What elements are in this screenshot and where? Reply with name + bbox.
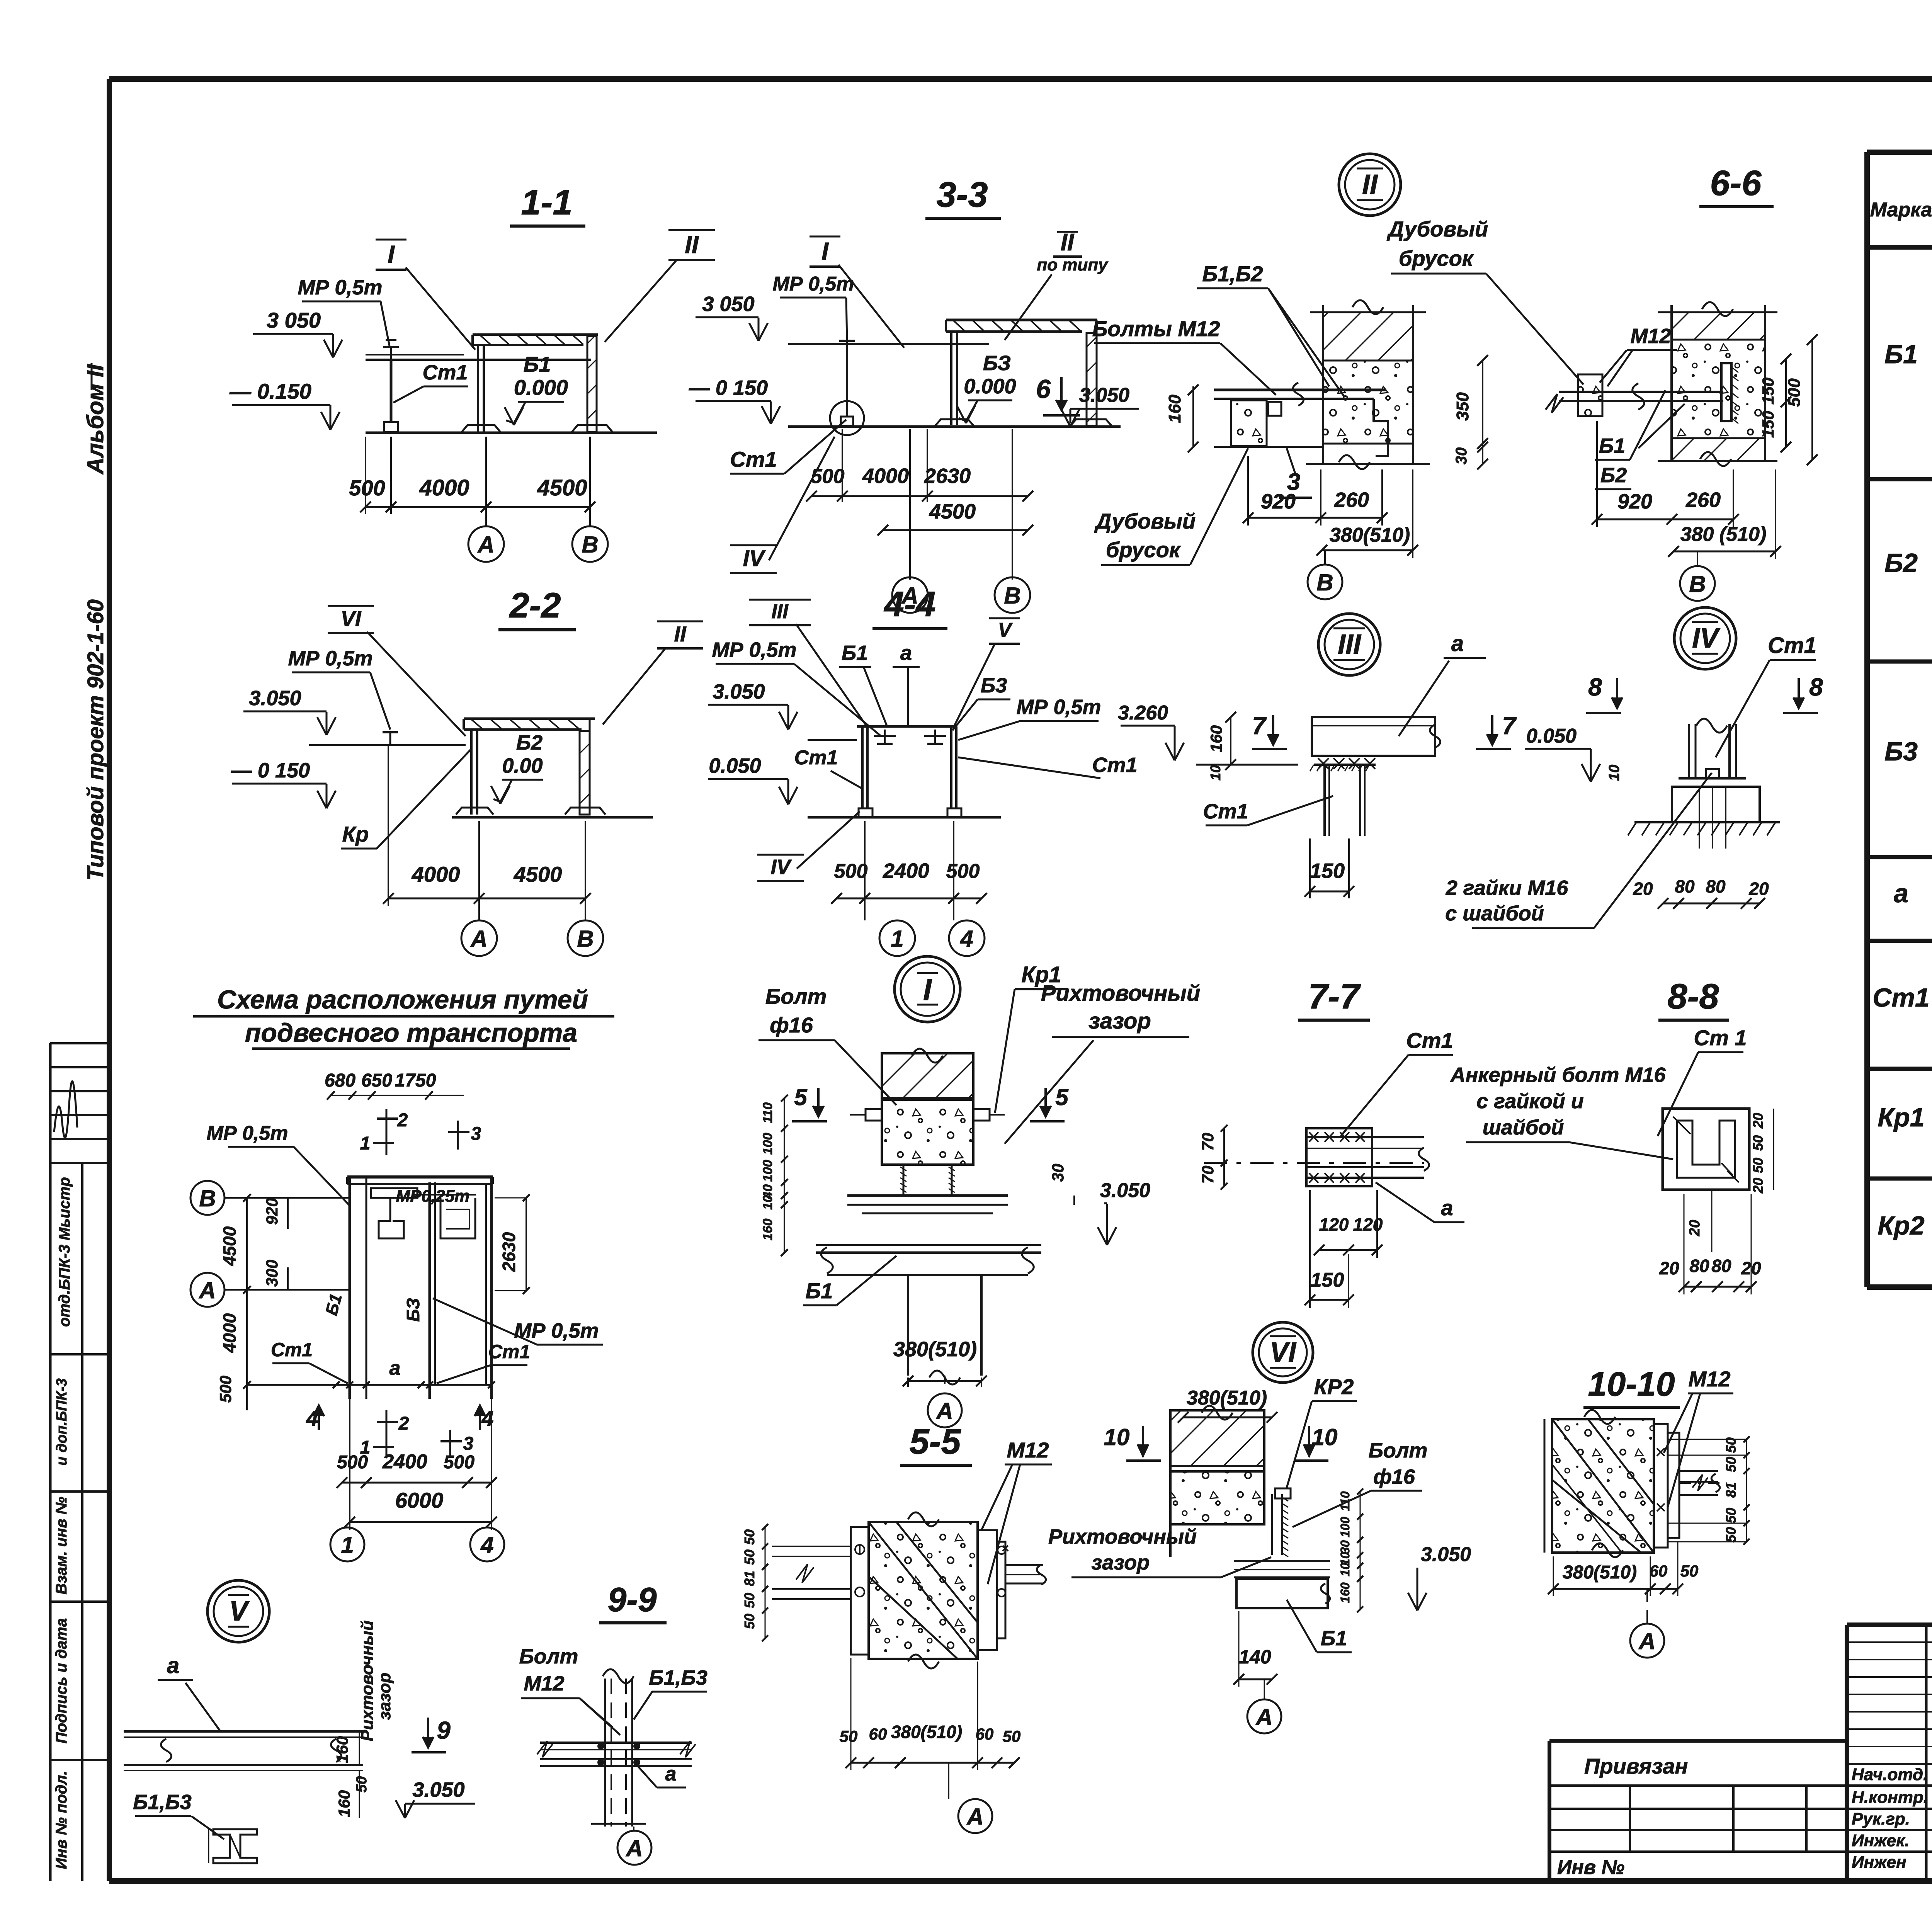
svg-text:10: 10 <box>1312 1424 1338 1450</box>
svg-text:Инв №: Инв № <box>1557 1856 1624 1879</box>
svg-text:брусок: брусок <box>1399 246 1474 270</box>
svg-text:Рихтовочный: Рихтовочный <box>358 1620 377 1741</box>
svg-text:— 0 150: — 0 150 <box>689 376 768 400</box>
svg-text:Б2: Б2 <box>516 731 543 754</box>
svg-text:с шайбой: с шайбой <box>1445 902 1544 925</box>
svg-text:4000: 4000 <box>862 464 909 488</box>
svg-text:260: 260 <box>1334 488 1369 512</box>
svg-text:80: 80 <box>1706 876 1726 896</box>
svg-text:Б1,Б3: Б1,Б3 <box>133 1791 192 1814</box>
svg-text:Кр1: Кр1 <box>1878 1103 1924 1132</box>
svg-text:МР 0,5т: МР 0,5т <box>712 638 796 662</box>
svg-text:МР 0,5т: МР 0,5т <box>773 273 854 295</box>
svg-text:4000: 4000 <box>219 1313 240 1353</box>
svg-text:II: II <box>1061 229 1075 256</box>
svg-text:50: 50 <box>840 1727 858 1745</box>
svg-text:2400: 2400 <box>382 1451 427 1473</box>
svg-text:5-5: 5-5 <box>910 1422 962 1461</box>
svg-text:20: 20 <box>1750 1178 1766 1194</box>
svg-text:Кр2: Кр2 <box>1878 1211 1924 1240</box>
svg-text:Б3: Б3 <box>1884 737 1918 766</box>
svg-text:20: 20 <box>1633 879 1653 899</box>
svg-text:0.00: 0.00 <box>502 754 543 777</box>
svg-text:зазор: зазор <box>1088 1009 1151 1034</box>
svg-text:и доп.БПК-3: и доп.БПК-3 <box>54 1378 70 1466</box>
svg-text:Ст1: Ст1 <box>271 1339 313 1361</box>
svg-text:В: В <box>582 532 598 558</box>
svg-text:500: 500 <box>811 465 845 488</box>
svg-text:II: II <box>685 231 699 259</box>
svg-text:920: 920 <box>263 1198 281 1225</box>
svg-text:2-2: 2-2 <box>509 586 561 625</box>
svg-text:50: 50 <box>1680 1562 1699 1580</box>
svg-text:МР 0,5т: МР 0,5т <box>207 1122 288 1145</box>
svg-text:А: А <box>1255 1704 1272 1730</box>
svg-text:М12: М12 <box>1689 1367 1731 1391</box>
svg-text:650: 650 <box>361 1070 392 1091</box>
svg-text:80: 80 <box>1689 1256 1709 1276</box>
svg-text:150: 150 <box>1311 1269 1344 1291</box>
svg-text:А: А <box>198 1277 216 1303</box>
svg-text:МР 0,5т: МР 0,5т <box>1016 696 1101 719</box>
svg-text:6000: 6000 <box>395 1488 444 1512</box>
svg-text:I: I <box>923 973 932 1007</box>
svg-text:А: А <box>966 1804 983 1830</box>
svg-text:3: 3 <box>471 1124 481 1144</box>
svg-text:М12: М12 <box>1007 1438 1049 1462</box>
svg-text:0.000: 0.000 <box>514 375 568 400</box>
svg-text:70: 70 <box>1199 1133 1217 1151</box>
svg-text:2 гайки М16: 2 гайки М16 <box>1446 876 1569 900</box>
svg-text:7: 7 <box>1252 712 1267 740</box>
svg-text:3 050: 3 050 <box>702 293 754 316</box>
svg-text:30: 30 <box>1453 447 1470 465</box>
svg-text:а: а <box>1451 631 1464 656</box>
svg-text:IV: IV <box>743 546 766 571</box>
svg-text:10: 10 <box>1104 1424 1130 1450</box>
svg-text:50: 50 <box>1750 1158 1766 1173</box>
svg-text:100: 100 <box>760 1133 775 1155</box>
svg-text:А: А <box>470 926 487 952</box>
svg-text:1-1: 1-1 <box>521 183 573 222</box>
svg-text:А: А <box>477 532 494 558</box>
svg-text:Б3: Б3 <box>981 674 1007 697</box>
svg-text:80: 80 <box>1711 1256 1731 1276</box>
svg-text:160: 160 <box>760 1219 775 1241</box>
svg-text:а: а <box>1441 1196 1453 1220</box>
svg-text:260: 260 <box>1685 488 1721 512</box>
svg-text:отд.БПК-3 Мьистр: отд.БПК-3 Мьистр <box>56 1177 73 1327</box>
svg-text:110: 110 <box>760 1102 775 1123</box>
svg-text:Ст1: Ст1 <box>794 747 838 769</box>
svg-text:81: 81 <box>1723 1482 1739 1498</box>
svg-text:10: 10 <box>760 1195 775 1210</box>
svg-text:3 050: 3 050 <box>267 308 321 332</box>
svg-text:Б1: Б1 <box>524 352 551 376</box>
svg-text:Инжен: Инжен <box>1852 1853 1906 1872</box>
svg-text:4500: 4500 <box>537 475 587 500</box>
svg-text:V: V <box>229 1596 250 1627</box>
svg-text:140: 140 <box>1239 1646 1271 1668</box>
svg-text:шайбой: шайбой <box>1483 1116 1564 1139</box>
svg-text:150: 150 <box>1759 378 1777 405</box>
svg-text:500: 500 <box>946 860 980 883</box>
svg-text:VI: VI <box>1270 1337 1297 1368</box>
svg-text:5: 5 <box>794 1084 808 1110</box>
svg-text:160: 160 <box>335 1790 353 1817</box>
svg-text:МР0,25т: МР0,25т <box>396 1187 470 1206</box>
svg-text:4-4: 4-4 <box>884 585 936 624</box>
svg-text:Ст1: Ст1 <box>488 1341 530 1362</box>
svg-text:Болты М12: Болты М12 <box>1092 316 1220 341</box>
svg-text:3: 3 <box>463 1434 474 1454</box>
svg-text:Ст1: Ст1 <box>1768 633 1816 658</box>
svg-text:II: II <box>674 622 687 646</box>
svg-text:зазор: зазор <box>375 1673 394 1720</box>
svg-text:50: 50 <box>742 1549 757 1565</box>
svg-text:а: а <box>389 1357 401 1379</box>
svg-text:Привязан: Привязан <box>1584 1754 1688 1778</box>
svg-text:120: 120 <box>1353 1214 1383 1235</box>
svg-text:160: 160 <box>1207 725 1225 752</box>
svg-text:Б2: Б2 <box>1884 548 1918 578</box>
svg-text:А: А <box>1638 1628 1655 1654</box>
svg-text:10: 10 <box>1207 765 1223 781</box>
svg-text:8: 8 <box>1588 673 1602 701</box>
svg-text:Ст1: Ст1 <box>1092 753 1137 777</box>
svg-text:4000: 4000 <box>419 475 469 500</box>
svg-text:500: 500 <box>444 1452 474 1473</box>
svg-text:Б1,Б2: Б1,Б2 <box>1202 262 1263 286</box>
svg-text:КР2: КР2 <box>1314 1374 1354 1399</box>
svg-text:4: 4 <box>480 1532 493 1558</box>
svg-text:с гайкой и: с гайкой и <box>1476 1090 1584 1113</box>
svg-text:5: 5 <box>1055 1084 1069 1110</box>
svg-text:81: 81 <box>742 1571 757 1586</box>
svg-text:500: 500 <box>349 476 385 500</box>
svg-text:3.050: 3.050 <box>1079 384 1129 406</box>
svg-text:50: 50 <box>1723 1508 1739 1523</box>
svg-text:Типовой проект 902-1-60: Типовой проект 902-1-60 <box>83 599 108 881</box>
svg-text:Б1: Б1 <box>1599 434 1625 457</box>
svg-text:Рихтовочный: Рихтовочный <box>1041 981 1201 1006</box>
svg-text:1: 1 <box>360 1133 371 1154</box>
svg-text:10: 10 <box>1338 1563 1352 1577</box>
svg-text:10: 10 <box>1606 765 1622 781</box>
svg-text:брусок: брусок <box>1106 537 1181 562</box>
svg-text:подвесного транспорта: подвесного транспорта <box>245 1018 577 1048</box>
svg-text:380(510): 380(510) <box>1330 524 1410 546</box>
svg-text:Б1: Б1 <box>842 641 868 665</box>
svg-text:Подпись и дата: Подпись и дата <box>53 1618 70 1743</box>
svg-text:Рук.гр.: Рук.гр. <box>1852 1810 1910 1828</box>
svg-text:1750: 1750 <box>395 1070 436 1091</box>
svg-text:Ст1: Ст1 <box>1203 800 1248 823</box>
svg-text:2: 2 <box>398 1413 409 1434</box>
svg-text:Кр: Кр <box>342 822 369 846</box>
svg-text:В: В <box>1689 571 1706 597</box>
svg-text:Б1: Б1 <box>1321 1627 1347 1650</box>
svg-text:300: 300 <box>263 1260 281 1287</box>
svg-text:500: 500 <box>216 1376 235 1403</box>
svg-text:380 (510): 380 (510) <box>1680 523 1767 546</box>
svg-text:Ст1: Ст1 <box>1406 1028 1453 1053</box>
svg-text:500: 500 <box>337 1452 368 1473</box>
svg-text:IV: IV <box>770 855 792 879</box>
svg-text:Болт: Болт <box>1369 1439 1428 1462</box>
svg-text:а: а <box>167 1653 179 1678</box>
svg-text:50: 50 <box>1003 1727 1021 1745</box>
svg-text:6-6: 6-6 <box>1710 163 1762 203</box>
svg-text:Б2: Б2 <box>1600 464 1627 487</box>
svg-text:Ст 1: Ст 1 <box>1694 1026 1747 1050</box>
svg-text:ф16: ф16 <box>1373 1465 1415 1488</box>
svg-text:2630: 2630 <box>924 464 971 488</box>
svg-text:по типу: по типу <box>1037 255 1109 274</box>
svg-text:10-10: 10-10 <box>1588 1365 1675 1403</box>
svg-text:М12: М12 <box>524 1672 564 1695</box>
svg-text:350: 350 <box>1453 392 1472 421</box>
svg-text:Анкерный болт М16: Анкерный болт М16 <box>1450 1063 1666 1087</box>
svg-text:50: 50 <box>742 1614 757 1629</box>
svg-text:920: 920 <box>1617 490 1652 513</box>
svg-text:3.050: 3.050 <box>412 1778 464 1801</box>
svg-text:2630: 2630 <box>499 1232 519 1272</box>
svg-text:А: А <box>625 1835 643 1861</box>
svg-text:III: III <box>1338 629 1362 660</box>
svg-text:БЗ: БЗ <box>983 352 1011 375</box>
svg-text:Болт: Болт <box>519 1645 578 1668</box>
svg-text:4500: 4500 <box>514 862 562 886</box>
svg-text:В: В <box>199 1185 216 1211</box>
svg-text:1: 1 <box>891 926 903 952</box>
svg-text:Взам. инв №: Взам. инв № <box>53 1497 70 1594</box>
svg-text:160: 160 <box>1165 395 1184 423</box>
svg-text:50: 50 <box>1723 1457 1739 1472</box>
svg-text:МР 0,5т: МР 0,5т <box>288 647 372 670</box>
svg-text:Инв № подл.: Инв № подл. <box>53 1771 70 1869</box>
svg-text:Ст1: Ст1 <box>730 447 777 471</box>
svg-text:3.050: 3.050 <box>1100 1179 1150 1202</box>
svg-text:ф16: ф16 <box>770 1013 813 1037</box>
svg-text:III: III <box>771 600 789 623</box>
svg-text:3.050: 3.050 <box>1421 1543 1471 1566</box>
svg-text:I: I <box>821 237 829 265</box>
svg-text:60: 60 <box>976 1725 994 1743</box>
svg-text:I: I <box>388 240 395 268</box>
svg-text:БЗ: БЗ <box>403 1298 423 1322</box>
svg-text:3.260: 3.260 <box>1118 702 1168 724</box>
svg-text:V: V <box>998 619 1013 641</box>
svg-text:Болт: Болт <box>765 984 827 1009</box>
svg-text:160: 160 <box>333 1736 351 1763</box>
svg-text:Марка: Марка <box>1870 199 1932 221</box>
svg-text:50: 50 <box>1723 1527 1739 1543</box>
svg-text:60: 60 <box>1650 1562 1668 1580</box>
svg-text:0.050: 0.050 <box>709 754 761 777</box>
svg-text:а: а <box>1894 879 1908 908</box>
svg-text:Б1,Б3: Б1,Б3 <box>649 1666 707 1689</box>
svg-text:0.000: 0.000 <box>964 375 1016 398</box>
svg-text:7: 7 <box>1502 712 1517 740</box>
svg-text:150: 150 <box>1310 859 1345 883</box>
svg-text:Дубовый: Дубовый <box>1387 217 1488 241</box>
svg-text:Рихтовочный: Рихтовочный <box>1048 1525 1197 1548</box>
svg-text:8: 8 <box>1809 673 1823 701</box>
svg-text:0.050: 0.050 <box>1526 725 1577 747</box>
svg-text:В: В <box>1004 583 1020 609</box>
svg-text:70: 70 <box>1199 1166 1217 1184</box>
svg-text:8-8: 8-8 <box>1668 977 1719 1016</box>
svg-text:1: 1 <box>341 1532 354 1558</box>
svg-text:680: 680 <box>325 1070 355 1091</box>
svg-text:20: 20 <box>1750 1113 1766 1129</box>
svg-text:380(510): 380(510) <box>893 1338 977 1361</box>
svg-text:380(510): 380(510) <box>1563 1562 1637 1583</box>
svg-text:МР 0,5т: МР 0,5т <box>298 276 382 299</box>
svg-text:— 0.150: — 0.150 <box>229 379 311 403</box>
svg-text:2: 2 <box>397 1110 408 1131</box>
svg-text:Ст1: Ст1 <box>1872 983 1929 1012</box>
svg-text:Дубовый: Дубовый <box>1094 509 1196 533</box>
svg-text:920: 920 <box>1261 490 1296 513</box>
svg-text:7-7: 7-7 <box>1308 977 1361 1016</box>
svg-text:120: 120 <box>1319 1214 1349 1235</box>
svg-text:зазор: зазор <box>1092 1551 1150 1574</box>
svg-text:VI: VI <box>341 606 362 631</box>
svg-text:30: 30 <box>1049 1164 1067 1182</box>
svg-text:4: 4 <box>960 926 973 952</box>
svg-text:380(510): 380(510) <box>891 1722 962 1742</box>
svg-text:50: 50 <box>742 1593 757 1608</box>
svg-text:160: 160 <box>1338 1582 1352 1603</box>
svg-text:Б1: Б1 <box>806 1279 833 1303</box>
svg-text:9: 9 <box>437 1716 451 1744</box>
svg-text:3-3: 3-3 <box>937 175 988 214</box>
svg-text:50: 50 <box>354 1776 370 1793</box>
svg-text:3.050: 3.050 <box>713 680 765 703</box>
svg-text:Н.контр.: Н.контр. <box>1852 1788 1928 1807</box>
svg-text:60: 60 <box>869 1725 887 1743</box>
svg-text:500: 500 <box>1785 378 1804 407</box>
svg-text:4500: 4500 <box>219 1226 240 1266</box>
svg-text:50: 50 <box>1750 1135 1766 1151</box>
svg-text:4500: 4500 <box>929 500 976 523</box>
svg-text:150: 150 <box>1759 411 1777 438</box>
svg-text:80: 80 <box>1675 876 1695 896</box>
svg-text:500: 500 <box>834 860 868 883</box>
svg-text:Ст1: Ст1 <box>422 361 468 384</box>
svg-text:IV: IV <box>1692 623 1721 654</box>
svg-text:II: II <box>1362 169 1378 200</box>
svg-text:В: В <box>577 926 594 952</box>
svg-text:50: 50 <box>742 1529 757 1545</box>
svg-text:Инжек.: Инжек. <box>1852 1831 1910 1850</box>
svg-text:3.050: 3.050 <box>249 687 301 710</box>
svg-text:20: 20 <box>1687 1220 1703 1236</box>
svg-text:110: 110 <box>1338 1491 1352 1511</box>
svg-text:— 0 150: — 0 150 <box>231 759 310 782</box>
svg-text:2400: 2400 <box>883 859 929 883</box>
svg-text:В: В <box>1316 570 1333 595</box>
svg-text:Схема расположения путей: Схема расположения путей <box>217 985 588 1014</box>
svg-text:МР 0,5т: МР 0,5т <box>514 1319 599 1342</box>
svg-text:100: 100 <box>760 1160 775 1182</box>
svg-text:А: А <box>935 1398 953 1424</box>
svg-text:100: 100 <box>1338 1517 1352 1537</box>
svg-text:20: 20 <box>1748 879 1769 899</box>
svg-text:Б1: Б1 <box>1884 340 1918 369</box>
svg-text:а: а <box>900 641 912 665</box>
svg-text:6: 6 <box>1036 374 1051 404</box>
svg-text:9-9: 9-9 <box>607 1580 656 1619</box>
svg-text:380(510): 380(510) <box>1187 1387 1267 1409</box>
svg-text:М12: М12 <box>1630 325 1671 348</box>
svg-text:4000: 4000 <box>412 862 460 886</box>
svg-text:а: а <box>665 1763 677 1785</box>
svg-text:Нач.отд.: Нач.отд. <box>1852 1765 1928 1784</box>
svg-text:Альбом II: Альбом II <box>82 364 108 475</box>
svg-text:20: 20 <box>1659 1258 1679 1278</box>
